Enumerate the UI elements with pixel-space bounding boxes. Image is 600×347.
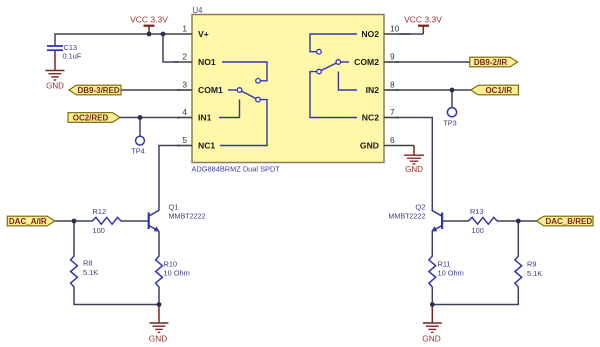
wire R8 bottom to ground node [74, 287, 159, 305]
pin 9 stub [384, 61, 399, 63]
svg-text:VCC 3.3V: VCC 3.3V [404, 15, 442, 25]
port DB9-2/IR [470, 57, 518, 67]
svg-text:U4: U4 [193, 6, 204, 15]
port OC2/RED [68, 113, 120, 123]
transistor Q2 [388, 203, 442, 232]
svg-text:NO2: NO2 [361, 29, 379, 39]
svg-text:R8: R8 [83, 259, 92, 268]
junction node bottom left [157, 302, 162, 307]
svg-text:GND: GND [405, 165, 423, 174]
pin 5 stub [177, 145, 192, 147]
svg-text:DB9-3/RED: DB9-3/RED [77, 86, 119, 95]
junction node TP4 [138, 115, 143, 120]
svg-text:GND: GND [46, 82, 64, 91]
transistor Q1 [149, 203, 206, 232]
wire R13 to DAC_B/RED [497, 220, 536, 222]
svg-text:5.1K: 5.1K [527, 269, 542, 278]
junction node R13 R9 [516, 219, 521, 224]
wire branch pin1 junction down to pin2 [163, 34, 178, 62]
svg-text:5.1K: 5.1K [83, 268, 98, 277]
svg-text:IN1: IN1 [198, 113, 212, 123]
switch S1 IN1 control [219, 100, 240, 118]
resistor R12 [92, 207, 121, 235]
svg-text:0.1uF: 0.1uF [63, 52, 82, 61]
svg-text:10: 10 [390, 24, 400, 34]
svg-text:COM1: COM1 [198, 85, 223, 95]
svg-text:4: 4 [182, 107, 187, 117]
port OC1/IR [471, 85, 519, 95]
resistor R8 [71, 256, 99, 287]
resistor R13 [469, 207, 498, 235]
svg-text:TP4: TP4 [131, 146, 145, 155]
svg-text:V+: V+ [198, 29, 209, 39]
pin 8 stub [384, 89, 399, 91]
svg-text:MMBT2222: MMBT2222 [169, 212, 206, 221]
ground GND under C13 [46, 51, 65, 91]
pin 6 stub [384, 145, 414, 147]
junction node VCC left [147, 32, 152, 37]
wire R12 to Q1 base [121, 220, 148, 222]
svg-text:IN2: IN2 [366, 85, 380, 95]
wire DB9-3/RED to COM1 [121, 89, 180, 91]
svg-text:OC2/RED: OC2/RED [73, 113, 109, 122]
svg-text:OC1/IR: OC1/IR [485, 86, 512, 95]
wire Q1 emitter to R10 [158, 231, 160, 257]
svg-text:DAC_A/IR: DAC_A/IR [9, 217, 47, 226]
switch S2 NC2 branch [310, 72, 357, 118]
pin 4 stub [177, 117, 192, 119]
wire NC2 pin7 to Q2 collector [396, 118, 432, 211]
svg-text:R12: R12 [93, 207, 107, 216]
wire VCC rail to C13 and U4 pin1 [55, 34, 163, 46]
wire TP3 stub [451, 90, 453, 108]
junction node TP3 [450, 88, 455, 93]
svg-text:R11: R11 [438, 259, 451, 268]
svg-text:9: 9 [390, 52, 395, 62]
ground GND bottom left [149, 305, 169, 344]
IC U4 body [192, 15, 384, 163]
svg-text:TP3: TP3 [443, 118, 457, 127]
port DAC_A/IR [7, 216, 54, 226]
power port VCC 3.3V right [404, 15, 442, 35]
svg-text:2: 2 [182, 52, 187, 62]
wire pin10 to VCC [399, 33, 423, 35]
wire NC1 pin5 to Q1 collector [159, 146, 180, 211]
svg-text:7: 7 [390, 107, 395, 117]
svg-text:6: 6 [390, 135, 395, 145]
pin 2 stub [174, 61, 192, 63]
wire Q2 emitter to R11 [431, 231, 433, 257]
svg-text:3: 3 [182, 80, 187, 90]
pin 10 stub [384, 33, 410, 35]
wire Q2 base to R13 [443, 220, 469, 222]
svg-text:GND: GND [360, 141, 379, 151]
svg-text:10 Ohm: 10 Ohm [164, 269, 190, 278]
svg-text:ADG884BRMZ Dual SPDT: ADG884BRMZ Dual SPDT [192, 165, 281, 174]
pin 1 stub [163, 33, 192, 35]
test point TP4 [131, 136, 145, 155]
svg-text:5: 5 [182, 135, 187, 145]
svg-text:NC1: NC1 [198, 141, 215, 151]
switch S1 NO1 branch [222, 62, 267, 83]
port DAC_B/RED [536, 216, 593, 226]
svg-text:GND: GND [149, 334, 167, 344]
ground GND at pin 6 [404, 146, 424, 175]
wire TP4 stub [139, 118, 141, 137]
resistor R11 [429, 256, 464, 287]
test point TP3 [443, 108, 457, 128]
svg-text:100: 100 [93, 226, 105, 235]
wire OC2/RED to IN1 [120, 117, 180, 119]
junction node DAC_A R8 [72, 219, 77, 224]
svg-text:R13: R13 [470, 207, 484, 216]
svg-text:R10: R10 [164, 259, 178, 268]
resistor R10 [156, 256, 190, 287]
svg-text:NO1: NO1 [198, 57, 216, 67]
svg-text:Q1: Q1 [169, 203, 179, 212]
svg-text:COM2: COM2 [354, 57, 379, 67]
wire R8 top lead [73, 221, 75, 257]
wire pin9 to DB9-2/IR [396, 61, 470, 63]
svg-text:1: 1 [182, 24, 187, 34]
svg-text:MMBT2222: MMBT2222 [388, 212, 425, 221]
pin 7 stub [384, 117, 399, 119]
switch S1 COM1 pole and arm [228, 88, 260, 102]
svg-text:10 Ohm: 10 Ohm [438, 269, 464, 278]
wire R9 top lead [517, 221, 519, 257]
svg-text:VCC 3.3V: VCC 3.3V [130, 15, 168, 25]
wire R9 bottom to ground node [432, 287, 518, 305]
switch S1 NC1 branch [220, 100, 267, 146]
capacitor C13 [47, 43, 82, 61]
svg-text:100: 100 [472, 226, 484, 235]
svg-text:NC2: NC2 [362, 113, 379, 123]
switch S2 NO2 branch [310, 34, 357, 54]
wire R11 bottom lead [431, 287, 433, 305]
port DB9-3/RED [69, 85, 121, 95]
pin 3 stub [177, 89, 192, 91]
power port VCC 3.3V left [130, 15, 168, 35]
wire DAC_A/IR to R12 [55, 220, 93, 222]
wire pin8 to OC1/IR [396, 89, 471, 91]
svg-text:R9: R9 [527, 259, 536, 268]
junction node bottom right [430, 302, 435, 307]
svg-text:Q2: Q2 [415, 203, 425, 212]
svg-text:GND: GND [422, 334, 440, 344]
svg-text:DAC_B/RED: DAC_B/RED [545, 217, 592, 226]
resistor R9 [515, 256, 542, 287]
switch S2 COM2 pole and arm [317, 60, 349, 74]
ground GND bottom right [422, 305, 442, 344]
svg-text:DB9-2/IR: DB9-2/IR [474, 58, 508, 67]
switch S2 IN2 control [338, 72, 357, 91]
svg-text:8: 8 [390, 80, 395, 90]
wire R10 bottom lead [158, 287, 160, 305]
junction node pin1 branch [161, 32, 166, 37]
